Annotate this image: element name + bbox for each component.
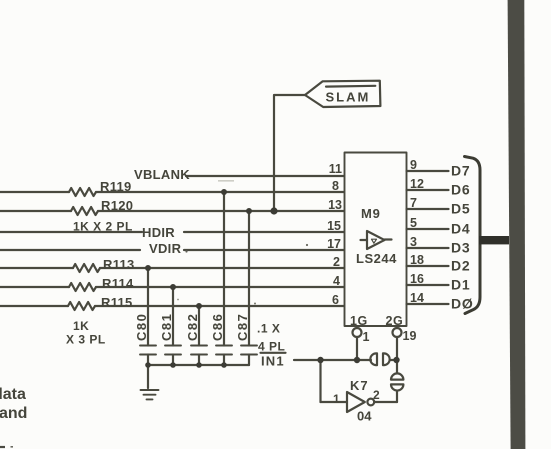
svg-text:15: 15 xyxy=(327,219,341,233)
svg-text:D3: D3 xyxy=(451,240,471,256)
svg-text:1: 1 xyxy=(363,330,370,344)
svg-text:2: 2 xyxy=(333,255,340,269)
svg-text:19: 19 xyxy=(403,329,417,343)
svg-text:HDIR: HDIR xyxy=(142,225,175,240)
svg-text:C80: C80 xyxy=(134,313,149,341)
svg-text:14: 14 xyxy=(410,291,424,305)
svg-text:3: 3 xyxy=(410,235,417,249)
svg-text:17: 17 xyxy=(327,237,341,251)
svg-text:VBLANK: VBLANK xyxy=(134,167,190,182)
svg-text:D2: D2 xyxy=(451,258,471,274)
svg-text:9: 9 xyxy=(410,158,417,172)
svg-text:DØ: DØ xyxy=(451,296,474,312)
svg-text:R113: R113 xyxy=(103,257,135,272)
svg-text:18: 18 xyxy=(410,253,424,267)
svg-text:1K: 1K xyxy=(73,319,89,333)
svg-text:C87: C87 xyxy=(235,313,250,341)
svg-text:M9: M9 xyxy=(361,206,381,221)
svg-text:R119: R119 xyxy=(100,179,132,194)
svg-text:D4: D4 xyxy=(451,221,471,237)
svg-text:.1 X: .1 X xyxy=(257,322,280,336)
svg-text:data: data xyxy=(0,386,26,403)
svg-text:13: 13 xyxy=(328,198,342,212)
svg-text:C81: C81 xyxy=(159,313,174,341)
svg-text:R115: R115 xyxy=(101,295,133,310)
svg-text:1: 1 xyxy=(333,392,340,406)
svg-text:C82: C82 xyxy=(185,313,200,341)
svg-text:D7: D7 xyxy=(451,163,471,179)
svg-text:LS244: LS244 xyxy=(356,251,397,266)
svg-text:1K X 2 PL: 1K X 2 PL xyxy=(73,220,133,234)
svg-text:8: 8 xyxy=(332,179,339,193)
svg-text:4 PL: 4 PL xyxy=(258,340,285,354)
svg-text:04: 04 xyxy=(357,409,372,424)
svg-text:SLAM: SLAM xyxy=(326,90,371,105)
svg-text:and: and xyxy=(0,405,27,422)
svg-text:IN1: IN1 xyxy=(261,354,285,369)
svg-text:6: 6 xyxy=(332,293,339,307)
svg-text:1G: 1G xyxy=(350,314,368,328)
svg-text:R120: R120 xyxy=(101,198,133,213)
svg-text:C86: C86 xyxy=(210,313,225,341)
svg-text:D1: D1 xyxy=(451,277,471,293)
svg-text:16: 16 xyxy=(410,272,424,286)
svg-text:X 3 PL: X 3 PL xyxy=(66,333,106,347)
svg-text:4: 4 xyxy=(333,274,340,288)
svg-text:2G: 2G xyxy=(386,314,404,328)
svg-text:VDIR: VDIR xyxy=(149,241,182,256)
svg-text:12: 12 xyxy=(410,177,424,191)
svg-text:2: 2 xyxy=(373,388,380,402)
svg-text:K7: K7 xyxy=(350,378,369,393)
svg-text:D6: D6 xyxy=(451,182,471,198)
svg-text:R114: R114 xyxy=(102,276,134,291)
svg-text:7: 7 xyxy=(410,196,417,210)
svg-text:5: 5 xyxy=(410,216,417,230)
svg-text:D5: D5 xyxy=(451,201,471,217)
svg-text:11: 11 xyxy=(329,162,342,176)
